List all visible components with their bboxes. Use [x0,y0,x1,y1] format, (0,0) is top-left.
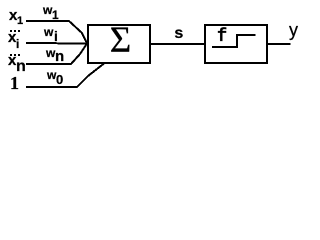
label wn [46,47,55,59]
label w1 [43,4,52,16]
node xi [8,30,16,45]
step function symbol [212,35,256,47]
node 1 (bias) [10,74,19,92]
node xn [8,53,16,68]
wire y [266,43,291,45]
f glyph U2 [217,28,227,47]
wire wi [26,42,87,45]
wires and boxes layer [0,0,301,97]
summation box U1 [88,25,150,63]
activation box U2 [205,25,267,63]
node y label [289,21,298,39]
sigma glyph U1 [110,22,132,59]
wire wn [26,44,87,65]
label wi [44,26,53,38]
node x1 [9,8,17,23]
node s label [174,26,184,42]
label w0 [47,69,56,81]
dots between xi and xn [10,54,20,56]
dots between x1 and xi [10,30,20,32]
wire w1 [26,21,87,44]
wire w0 [26,64,104,88]
wire s [150,43,205,45]
